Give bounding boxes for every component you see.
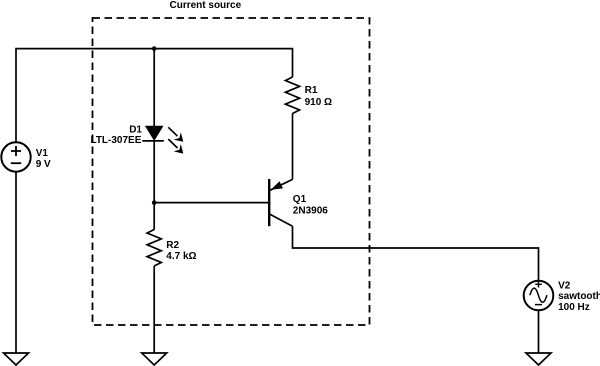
LED D1 triangle bbox=[146, 126, 163, 140]
junction dot: top rail / LED anode node bbox=[152, 46, 157, 51]
wire: collector to V2 top bbox=[293, 226, 539, 281]
svg-text:sawtooth: sawtooth bbox=[558, 291, 600, 302]
transistor Q1 collector diagonal bbox=[269, 214, 292, 226]
svg-text:910 Ω: 910 Ω bbox=[305, 97, 332, 108]
svg-text:R1: R1 bbox=[305, 85, 318, 96]
wire: V1 bottom to ground bbox=[15, 171, 17, 353]
resistor R2 bbox=[147, 230, 161, 267]
svg-text:V2: V2 bbox=[558, 280, 571, 291]
svg-text:Q1: Q1 bbox=[293, 194, 307, 205]
svg-text:R2: R2 bbox=[166, 240, 179, 251]
wire: R2 bottom to ground bbox=[153, 266, 155, 353]
svg-text:LTL-307EE: LTL-307EE bbox=[90, 135, 141, 146]
wire: top rail from V1 top via node to R1 top bbox=[16, 49, 293, 143]
svg-text:D1: D1 bbox=[129, 124, 142, 135]
voltage source V2 (sawtooth) bbox=[524, 281, 554, 311]
svg-text:V1: V1 bbox=[36, 148, 49, 159]
resistor R1 bbox=[285, 77, 299, 114]
ground (R2 branch) bbox=[142, 353, 167, 365]
dashed annotation box: current source bbox=[93, 18, 370, 325]
transistor Q1 base bar bbox=[268, 179, 270, 226]
LED D1 light arrow 2 bbox=[168, 139, 183, 154]
svg-text:2N3906: 2N3906 bbox=[293, 206, 328, 217]
wire: LED anode drop bbox=[153, 49, 155, 127]
wire: LED cathode to base node bbox=[153, 141, 155, 203]
wire: base node to Q1 base bbox=[154, 202, 269, 204]
wire: R1 bottom to Q1 emitter bbox=[292, 114, 294, 180]
svg-text:Current source: Current source bbox=[170, 0, 242, 11]
svg-text:4.7 kΩ: 4.7 kΩ bbox=[166, 251, 196, 262]
LED D1 cathode bar bbox=[142, 140, 164, 142]
ground (V1 branch) bbox=[4, 353, 29, 365]
ground (V2 branch) bbox=[526, 353, 551, 365]
transistor Q1 emitter diagonal bbox=[270, 179, 293, 190]
wire: base node to R2 top bbox=[153, 203, 155, 230]
wire: V2 bottom to ground bbox=[538, 310, 540, 354]
junction dot: base node bbox=[152, 200, 157, 205]
svg-text:100 Hz: 100 Hz bbox=[558, 302, 590, 313]
transistor Q1 emitter arrow (PNP) bbox=[271, 181, 283, 190]
voltage source V1 bbox=[1, 142, 30, 171]
svg-text:9 V: 9 V bbox=[36, 159, 51, 170]
LED D1 light arrow 1 bbox=[168, 127, 183, 142]
